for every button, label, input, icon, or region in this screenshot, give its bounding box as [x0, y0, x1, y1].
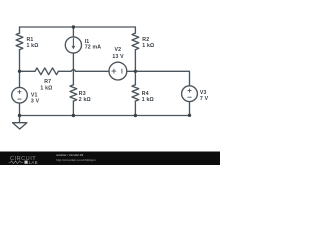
- svg-text:http://circuitlab.com/c6tkbjpm: http://circuitlab.com/c6tkbjpm: [56, 158, 96, 162]
- svg-text:R3: R3: [79, 91, 86, 97]
- svg-text:2 kΩ: 2 kΩ: [79, 97, 91, 103]
- wire R4 bottom lead: [134, 101, 136, 115]
- wire R7 to hop: [58, 70, 71, 72]
- wire V1 top lead: [19, 71, 21, 87]
- junction node bottom rail left / ground: [18, 114, 21, 117]
- wire ground stub: [19, 116, 21, 123]
- svg-text:1 kΩ: 1 kΩ: [142, 43, 154, 49]
- wire R1 bottom lead: [19, 50, 21, 72]
- resistor R2: [132, 33, 139, 50]
- V2 minus sign (rotated vertical bar): [121, 69, 123, 73]
- wire I1 top lead: [72, 27, 74, 37]
- current source I1: [65, 37, 81, 53]
- V3 plus sign: [188, 89, 191, 97]
- wire hop over I1-R3 column: [71, 69, 76, 71]
- wire middle rail right segment to V3 corner: [135, 71, 189, 86]
- junction node bottom rail at R4: [134, 114, 137, 117]
- voltage source V1: [12, 87, 28, 103]
- wire V2 right terminal to junction: [127, 70, 136, 72]
- svg-text:rambler / circuit2.49: rambler / circuit2.49: [56, 153, 83, 157]
- voltage source V3: [182, 86, 198, 102]
- svg-text:R7: R7: [44, 79, 51, 85]
- arrow of I1: [72, 39, 76, 50]
- junction node top (I1 / top rail): [72, 25, 75, 28]
- wire left column top lead: [19, 27, 21, 33]
- wire hop to V2: [75, 70, 109, 72]
- svg-text:1 kΩ: 1 kΩ: [27, 43, 39, 49]
- V3 minus sign: [188, 96, 191, 98]
- wire middle rail left segment: [20, 70, 36, 72]
- wire R2 bottom lead: [134, 50, 136, 72]
- junction node middle rail at R2/R4 column: [134, 70, 137, 73]
- CircuitLab logo resistor zigzag: [9, 161, 24, 164]
- junction node bottom rail at R3: [72, 114, 75, 117]
- resistor R4: [132, 85, 139, 101]
- wire bottom rail: [20, 115, 190, 117]
- wire V3 bottom lead: [189, 102, 191, 116]
- wire R4 top lead: [134, 71, 136, 84]
- voltage source V2: [109, 62, 127, 80]
- V1 plus sign: [18, 90, 21, 99]
- wire I1 to R3 (crosses middle rail): [72, 53, 74, 85]
- wire top rail: [20, 26, 136, 28]
- svg-text:R4: R4: [142, 91, 149, 97]
- ground: [13, 123, 27, 129]
- resistor R7: [35, 68, 58, 75]
- V1 minus sign: [18, 98, 21, 100]
- V2 plus sign: [112, 69, 122, 73]
- wire R2 top lead: [134, 27, 136, 33]
- resistor R1: [16, 33, 23, 50]
- svg-text:13 V: 13 V: [112, 54, 124, 60]
- svg-text:1 kΩ: 1 kΩ: [40, 85, 52, 91]
- svg-text:3 V: 3 V: [31, 99, 40, 105]
- junction node bottom rail at V3: [188, 114, 191, 117]
- resistor R3: [70, 85, 77, 101]
- CircuitLab logo LAB block: [25, 161, 28, 164]
- wire V1 bottom lead: [19, 103, 21, 116]
- svg-text:V1: V1: [31, 92, 38, 98]
- junction node middle rail left: [18, 70, 21, 73]
- wire R3 bottom lead: [72, 101, 74, 115]
- svg-text:72 mA: 72 mA: [85, 44, 102, 50]
- svg-text:1 kΩ: 1 kΩ: [142, 97, 154, 103]
- svg-text:LAB: LAB: [29, 160, 38, 165]
- svg-text:V2: V2: [115, 47, 122, 53]
- watermark footer bar: [0, 152, 220, 166]
- svg-text:7 V: 7 V: [200, 96, 209, 102]
